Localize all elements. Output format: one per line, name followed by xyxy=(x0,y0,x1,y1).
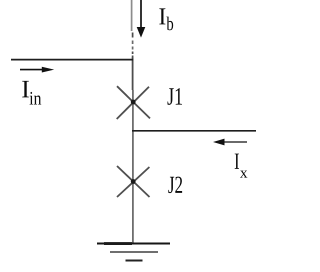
arrow: input current Iin pointing right xyxy=(20,69,43,71)
label J2 xyxy=(168,177,182,194)
ground symbol: top bar xyxy=(97,243,170,245)
ground symbol: bottom bar xyxy=(126,260,143,262)
wire: vertical bias line, top segment xyxy=(131,0,133,31)
arrow: bias current Ib pointing down xyxy=(140,0,142,28)
wire: left horizontal input line xyxy=(11,59,133,61)
wire: right horizontal control line xyxy=(132,130,256,132)
label Ix xyxy=(235,154,239,169)
label Ib xyxy=(159,8,165,24)
Josephson junction J1 (X symbol on wire) xyxy=(117,86,150,118)
arrow: control current Ix pointing left xyxy=(224,141,247,143)
ground symbol: middle bar xyxy=(110,251,158,253)
wire: vertical line from J1 through J2 down to ground xyxy=(132,90,134,244)
wire: vertical line from input node down to J1 xyxy=(132,58,134,91)
Josephson junction J2 (X symbol on wire) xyxy=(117,166,150,197)
wire: dashed segment of bias line below arrow tip xyxy=(132,33,134,59)
label Iin xyxy=(22,81,29,98)
label J1 xyxy=(167,88,182,105)
ground symbol: top bar thicker left section xyxy=(104,242,132,245)
